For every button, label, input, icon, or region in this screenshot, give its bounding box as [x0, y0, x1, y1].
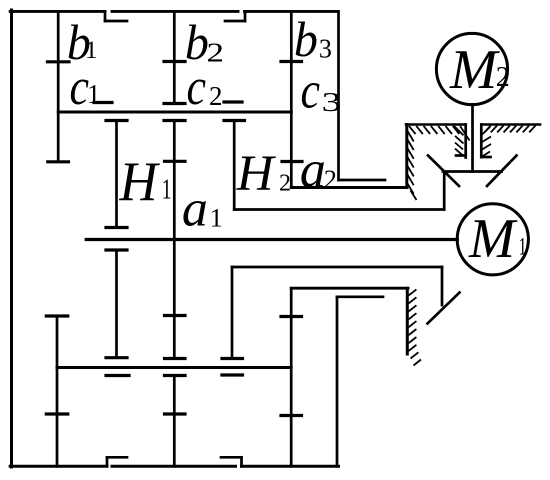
svg-text:1: 1 — [162, 175, 172, 206]
svg-text:2: 2 — [209, 81, 223, 111]
svg-text:b: b — [294, 11, 318, 67]
svg-text:M: M — [449, 39, 501, 101]
svg-text:3: 3 — [322, 87, 342, 117]
svg-text:2: 2 — [324, 165, 337, 194]
svg-text:H: H — [236, 146, 277, 202]
svg-text:2: 2 — [207, 38, 225, 68]
svg-text:1: 1 — [87, 79, 101, 109]
svg-text:2: 2 — [496, 62, 510, 93]
svg-text:M: M — [468, 208, 518, 270]
svg-text:2: 2 — [279, 171, 291, 197]
svg-text:3: 3 — [319, 34, 332, 64]
svg-text:c: c — [187, 59, 207, 116]
svg-text:H: H — [119, 151, 160, 213]
svg-text:a: a — [300, 142, 326, 199]
svg-text:a: a — [182, 181, 208, 238]
svg-text:1: 1 — [519, 234, 527, 261]
svg-text:1: 1 — [210, 204, 223, 233]
svg-text:c: c — [301, 63, 321, 120]
